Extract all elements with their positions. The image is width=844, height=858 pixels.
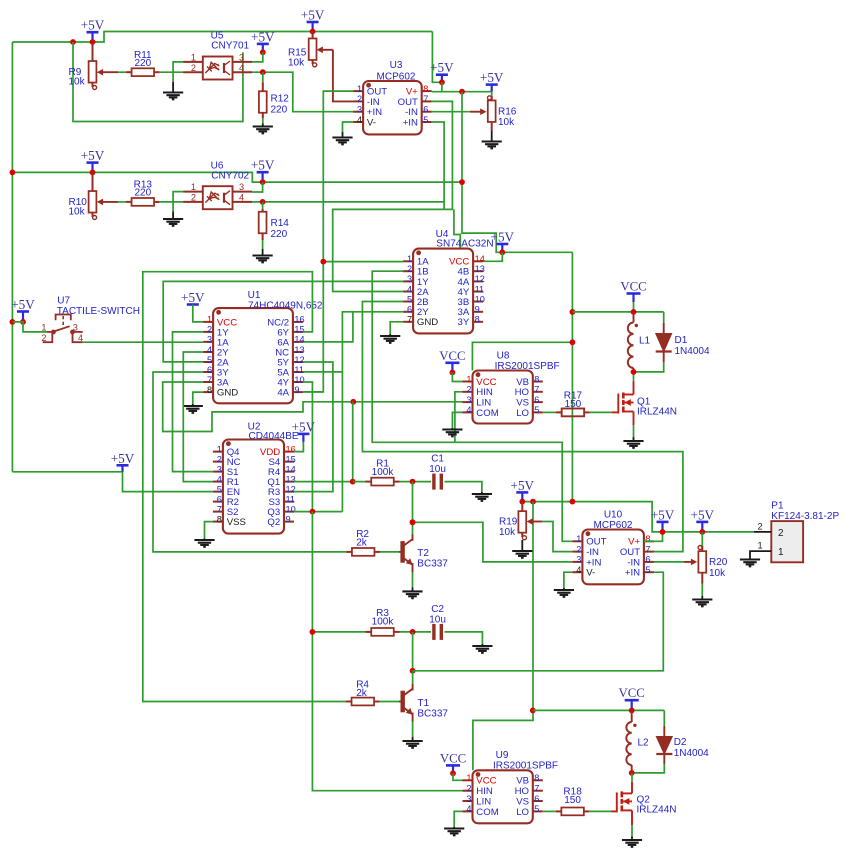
svg-text:6: 6 xyxy=(407,305,412,315)
wire U4 1B to U10 OUT net xyxy=(372,271,572,541)
wire R13 to U6 pin2 xyxy=(160,201,184,203)
wire U2 VSS to ground xyxy=(205,522,213,539)
wire U3 -IN2 to R16 wiper xyxy=(432,111,470,113)
svg-text:7: 7 xyxy=(407,315,412,325)
svg-text:4: 4 xyxy=(357,115,362,125)
svg-text:GND: GND xyxy=(417,317,438,328)
svg-text:L2: L2 xyxy=(638,738,650,749)
junction xyxy=(519,499,525,505)
wire VCC drop to U9 corner xyxy=(473,710,533,770)
resistor R19 (trimmer) xyxy=(518,502,542,540)
wire U10 -IN2 to R20 wiper xyxy=(654,561,684,563)
op-amp U3 MCP602 xyxy=(353,81,432,134)
svg-text:L1: L1 xyxy=(639,336,651,347)
svg-text:14: 14 xyxy=(294,335,304,345)
resistor R12 xyxy=(259,72,267,118)
junction R3/C2/T1 xyxy=(410,629,416,635)
svg-text:8: 8 xyxy=(645,534,650,544)
ground P1 xyxy=(740,560,760,567)
svg-text:100k: 100k xyxy=(372,617,395,628)
connector P1 KF124-3.81-2P xyxy=(754,521,803,562)
svg-text:1N4004: 1N4004 xyxy=(674,748,709,759)
resistor R10 (trimmer) xyxy=(89,172,118,219)
svg-text:+5V: +5V xyxy=(111,451,135,466)
svg-text:3: 3 xyxy=(207,335,212,345)
wire R1 to C1 xyxy=(400,481,432,483)
svg-text:1: 1 xyxy=(576,534,581,544)
+5V supply R9 xyxy=(81,18,105,42)
svg-text:GND: GND xyxy=(217,388,238,399)
driver U9 IRS2001SPBF xyxy=(463,770,543,823)
svg-text:4: 4 xyxy=(407,284,412,294)
svg-text:+5V: +5V xyxy=(651,507,675,522)
wire T1 collector to U10 pin5 xyxy=(413,572,664,671)
svg-text:+5V: +5V xyxy=(292,419,316,434)
svg-text:9: 9 xyxy=(286,514,291,524)
wire +5V to U1 pin1 xyxy=(193,305,203,322)
resistor R4 xyxy=(346,698,380,706)
ground R19 xyxy=(512,551,532,558)
wire U4 2Y to U1 5A 6A and Q3 net xyxy=(342,312,403,512)
junction L1 top xyxy=(631,309,637,315)
svg-text:CNY701: CNY701 xyxy=(211,41,249,52)
VCC supply U8 xyxy=(439,349,465,373)
wire R3 to C2 xyxy=(400,631,432,633)
svg-text:1: 1 xyxy=(41,322,46,332)
wire U2 R3 to U1 5Y xyxy=(294,362,333,492)
ground C1 xyxy=(472,494,492,501)
+5V supply EN xyxy=(111,451,135,472)
svg-text:6: 6 xyxy=(207,365,212,375)
svg-text:13: 13 xyxy=(475,264,485,274)
junction +5V net xyxy=(459,89,465,95)
svg-text:U8: U8 xyxy=(497,351,510,362)
svg-text:5: 5 xyxy=(534,804,539,814)
svg-text:VCC: VCC xyxy=(476,776,496,787)
ground U1 xyxy=(183,406,203,413)
junction U3 V+ xyxy=(439,79,445,85)
svg-text:+5V: +5V xyxy=(11,297,35,312)
svg-text:3: 3 xyxy=(466,395,471,405)
junction R20 xyxy=(699,529,705,535)
svg-text:15: 15 xyxy=(294,325,304,335)
svg-text:9: 9 xyxy=(475,305,480,315)
svg-text:7: 7 xyxy=(207,375,212,385)
svg-text:3Y: 3Y xyxy=(458,317,470,328)
svg-text:+IN: +IN xyxy=(625,568,640,579)
svg-text:U5: U5 xyxy=(211,30,224,41)
svg-text:8: 8 xyxy=(534,773,539,783)
wire U4 1A row xyxy=(323,261,403,263)
ground Q1 xyxy=(623,441,643,448)
svg-text:+IN: +IN xyxy=(403,117,418,128)
capacitor C1 xyxy=(434,474,441,490)
svg-text:4A: 4A xyxy=(277,388,289,399)
svg-text:7: 7 xyxy=(534,385,539,395)
svg-text:150: 150 xyxy=(565,399,582,410)
wire Q2 drain to L2/D2 xyxy=(631,782,633,793)
svg-text:MCP602: MCP602 xyxy=(594,520,633,531)
wire U2 Q3 row xyxy=(294,511,342,513)
svg-text:+5V: +5V xyxy=(301,8,325,23)
svg-text:9: 9 xyxy=(294,385,299,395)
svg-text:3: 3 xyxy=(239,53,244,63)
ground R12 xyxy=(253,127,273,134)
junction R1/C1/T2 xyxy=(410,479,416,485)
svg-text:2k: 2k xyxy=(356,538,368,549)
svg-text:U3: U3 xyxy=(390,60,403,71)
svg-text:6: 6 xyxy=(534,794,539,804)
svg-text:4: 4 xyxy=(466,804,471,814)
ground R20 xyxy=(692,600,712,607)
wire +5V to U3 V+ xyxy=(432,32,442,83)
junction R15 +5V xyxy=(310,29,316,35)
svg-text:3: 3 xyxy=(407,274,412,284)
svg-text:7: 7 xyxy=(217,504,222,514)
svg-text:R19: R19 xyxy=(499,517,518,528)
resistor R11 xyxy=(126,68,160,76)
junction U5 +5V xyxy=(260,49,266,55)
svg-text:4: 4 xyxy=(78,333,83,343)
wire R19 wiper to U10 -IN xyxy=(542,522,572,552)
transistor Q1 IRLZ44N xyxy=(618,393,633,414)
+5V supply R10 xyxy=(81,148,105,172)
VCC supply L1 xyxy=(620,280,646,303)
svg-text:+5V: +5V xyxy=(480,70,504,85)
ground R14 xyxy=(253,256,273,263)
wire T2 collector to U10 +IN xyxy=(413,522,573,562)
or-gate U4 SN74AC32N xyxy=(403,249,485,334)
svg-text:U6: U6 xyxy=(211,160,224,171)
resistor R2 xyxy=(346,548,380,556)
wire +5V distribution to R16 and U4 xyxy=(442,91,492,93)
svg-text:10u: 10u xyxy=(429,615,446,626)
svg-text:3: 3 xyxy=(239,182,244,192)
svg-text:6: 6 xyxy=(645,555,650,565)
svg-text:6: 6 xyxy=(534,395,539,405)
switch U7 TACTILE-SWITCH xyxy=(43,315,83,343)
junction T1 collector xyxy=(410,668,416,674)
wire +5V to U6 pin3 xyxy=(252,182,262,192)
junction U5 pin4 / R12 xyxy=(260,69,266,75)
wire U4 1Y output to U1 1Y chain xyxy=(163,281,403,362)
wire left vertical bus x=12.4 xyxy=(11,42,13,472)
svg-text:8: 8 xyxy=(423,84,428,94)
svg-text:3: 3 xyxy=(576,555,581,565)
svg-text:12: 12 xyxy=(294,355,304,365)
svg-text:TACTILE-SWITCH: TACTILE-SWITCH xyxy=(57,306,140,317)
svg-text:C1: C1 xyxy=(431,454,444,465)
svg-text:IRLZ44N: IRLZ44N xyxy=(637,805,677,816)
wire U3 V- to ground xyxy=(343,122,354,132)
svg-text:5: 5 xyxy=(645,565,650,575)
svg-text:6: 6 xyxy=(423,105,428,115)
svg-text:+5V: +5V xyxy=(181,290,205,305)
resistor R9 (trimmer) xyxy=(89,42,118,90)
svg-text:+5V: +5V xyxy=(81,18,105,33)
ground C2 xyxy=(472,646,492,653)
wire T1 emitter to ground xyxy=(411,714,413,722)
wire +5V over to VCC vertical xyxy=(571,252,573,501)
wire VCC drop to U8 corner xyxy=(472,342,572,370)
+5V supply U4 xyxy=(491,230,515,253)
svg-text:10: 10 xyxy=(294,375,304,385)
junction xyxy=(20,319,26,325)
wire R20 bottom to ground xyxy=(701,584,703,597)
wire T1 collector diag link xyxy=(411,684,413,690)
latch U2 CD4044BE xyxy=(213,440,296,534)
svg-text:1: 1 xyxy=(757,541,762,551)
ground U4 xyxy=(380,336,400,343)
svg-text:+5V: +5V xyxy=(691,507,715,522)
svg-text:11: 11 xyxy=(286,494,296,504)
VCC supply U9 xyxy=(440,751,466,773)
svg-text:13: 13 xyxy=(286,474,296,484)
driver U8 IRS2001SPBF xyxy=(463,371,543,424)
junction R1 left xyxy=(350,479,356,485)
svg-text:10k: 10k xyxy=(709,568,726,579)
svg-text:1: 1 xyxy=(207,315,212,325)
svg-text:10k: 10k xyxy=(69,207,86,218)
svg-text:2: 2 xyxy=(778,528,784,539)
+5V supply U7 xyxy=(11,297,35,322)
junction VCC xyxy=(570,339,576,345)
junction xyxy=(70,39,76,45)
wire R9 return x=73 to y=121.5 to x=242.9 xyxy=(73,42,243,122)
svg-text:4: 4 xyxy=(207,345,212,355)
wire R11 to U5 pin2 xyxy=(160,71,184,73)
svg-text:VCC: VCC xyxy=(620,280,646,294)
inverter U1 74HC4049N xyxy=(203,308,305,403)
wire Q2 source to ground xyxy=(631,810,633,825)
svg-text:C2: C2 xyxy=(431,604,444,615)
wire R18 to Q2 gate xyxy=(589,810,611,812)
wire R17 to Q1 gate xyxy=(590,411,613,413)
junction VCC U9 area xyxy=(530,708,536,714)
wire U9 LO to R18 xyxy=(543,810,556,812)
wire U8 COM to ground xyxy=(452,412,462,428)
junction xyxy=(90,170,96,176)
junction xyxy=(10,170,16,176)
svg-text:11: 11 xyxy=(475,284,485,294)
transistor T2 BC337 xyxy=(400,539,412,565)
svg-text:8: 8 xyxy=(475,315,480,325)
svg-text:8: 8 xyxy=(217,514,222,524)
svg-text:MCP602: MCP602 xyxy=(377,72,416,83)
diode D1 1N4004 xyxy=(663,312,665,323)
junction U6 pin3 net xyxy=(459,179,465,185)
svg-text:5: 5 xyxy=(423,115,428,125)
resistor R17 xyxy=(556,409,590,417)
svg-text:10u: 10u xyxy=(429,464,446,475)
wire LIN net to R1 node xyxy=(352,402,354,482)
+5V supply R15 xyxy=(301,8,325,32)
svg-text:R14: R14 xyxy=(271,218,290,229)
wire U1 5A branch xyxy=(303,371,343,373)
svg-text:2: 2 xyxy=(757,522,762,532)
wire U10 pin8 to +5V xyxy=(644,532,663,541)
svg-text:1: 1 xyxy=(778,547,784,558)
wire U1 3Y to R2 xyxy=(153,372,346,552)
resistor R14 xyxy=(259,202,267,240)
svg-text:U7: U7 xyxy=(57,295,70,306)
svg-text:2: 2 xyxy=(191,193,196,203)
svg-text:LIN: LIN xyxy=(476,796,491,807)
svg-text:P1: P1 xyxy=(771,501,784,512)
wire U4 GND to ground xyxy=(390,322,403,334)
svg-text:16: 16 xyxy=(294,315,304,325)
junction xyxy=(10,319,16,325)
svg-text:T2: T2 xyxy=(417,548,429,559)
wire T1 collector node xyxy=(412,632,414,671)
svg-text:5: 5 xyxy=(207,355,212,365)
wire U1 3A to U8 LIN xyxy=(163,382,463,432)
svg-text:COM: COM xyxy=(476,408,498,419)
ground U10 xyxy=(554,590,574,597)
svg-text:2: 2 xyxy=(407,264,412,274)
optocoupler U6 CNY702 xyxy=(183,186,252,209)
svg-text:1: 1 xyxy=(407,254,412,264)
wire Q3 net down to R3 and U9 HIN xyxy=(312,512,462,791)
svg-text:10k: 10k xyxy=(69,77,86,88)
svg-text:3: 3 xyxy=(466,794,471,804)
+5V supply R16 xyxy=(480,70,504,92)
svg-text:KF124-3.81-2P: KF124-3.81-2P xyxy=(771,511,839,522)
svg-text:BC337: BC337 xyxy=(417,709,448,720)
resistor R16 (trimmer) xyxy=(470,92,496,131)
svg-text:1: 1 xyxy=(466,773,471,783)
wire U8 LO to R17 xyxy=(543,411,556,413)
junction U6 pin4 / R14 xyxy=(260,199,266,205)
svg-text:D2: D2 xyxy=(674,737,687,748)
svg-text:VCC: VCC xyxy=(619,686,645,700)
wire node U5 pin4 row xyxy=(252,72,353,112)
svg-text:1: 1 xyxy=(217,444,222,454)
wire +5V rail right y=501.6 xyxy=(522,502,754,532)
svg-text:14: 14 xyxy=(286,464,296,474)
resistor R18 xyxy=(556,808,590,816)
wire U1 2Y to U2 R1 xyxy=(183,352,213,482)
svg-text:R12: R12 xyxy=(271,94,290,105)
wire U4 box-top appendage xyxy=(454,209,460,248)
svg-text:V-: V- xyxy=(367,117,376,128)
junction L1 bottom xyxy=(631,369,637,375)
resistor R1 xyxy=(353,478,400,486)
wire U1 1Y chain to 2A xyxy=(173,332,213,472)
svg-text:4: 4 xyxy=(217,474,222,484)
svg-text:12: 12 xyxy=(286,484,296,494)
wire U6 pin1 to ground xyxy=(173,192,183,212)
svg-text:3: 3 xyxy=(73,322,78,332)
junction U4 1A xyxy=(320,259,326,265)
svg-text:1: 1 xyxy=(357,84,362,94)
wire switch pin4 to U1 1A xyxy=(83,341,203,343)
svg-text:5: 5 xyxy=(407,294,412,304)
junction xyxy=(530,499,536,505)
resistor R20 (trimmer) xyxy=(684,532,706,584)
wire +5V rail top-left horizontal y=42 xyxy=(12,32,432,43)
wire VCC rail at L1 xyxy=(572,311,663,313)
wire U2 Q1 to R1 xyxy=(294,481,353,483)
wire C2 to ground xyxy=(445,632,483,644)
svg-text:LO: LO xyxy=(516,807,529,818)
svg-text:D1: D1 xyxy=(675,335,688,346)
ground U8 xyxy=(442,430,462,437)
junction Q3 net xyxy=(310,509,316,515)
svg-text:U10: U10 xyxy=(604,510,623,521)
svg-text:2: 2 xyxy=(357,94,362,104)
svg-text:16: 16 xyxy=(286,444,296,454)
wire +5V to switch pin1 xyxy=(12,322,47,332)
junction L2 bottom xyxy=(629,770,635,776)
svg-text:Q2: Q2 xyxy=(267,517,280,528)
svg-text:100k: 100k xyxy=(372,467,395,478)
svg-text:14: 14 xyxy=(475,254,485,264)
svg-text:VCC: VCC xyxy=(440,751,466,765)
wire U1 4Y down to Q3 node xyxy=(303,382,313,512)
svg-text:2: 2 xyxy=(41,333,46,343)
svg-text:7: 7 xyxy=(534,784,539,794)
svg-text:2: 2 xyxy=(466,385,471,395)
svg-text:U9: U9 xyxy=(496,750,509,761)
svg-text:+5V: +5V xyxy=(81,148,105,163)
svg-text:IRLZ44N: IRLZ44N xyxy=(637,407,677,418)
inductor L1 xyxy=(633,312,635,323)
junction U9 VCC xyxy=(450,770,456,776)
ground U6 pin1 xyxy=(163,219,183,226)
wire T2 collector node xyxy=(412,482,414,523)
svg-text:12: 12 xyxy=(475,274,485,284)
wire U3 OUT2 to U4 2A xyxy=(333,101,453,291)
wire Q1 drain to L1/D1 xyxy=(633,382,635,395)
svg-text:220: 220 xyxy=(134,58,151,69)
wire R4 to T1 base xyxy=(380,701,403,703)
svg-text:LO: LO xyxy=(516,408,529,419)
svg-text:+5V: +5V xyxy=(251,158,275,173)
svg-text:2k: 2k xyxy=(356,688,368,699)
capacitor C2 xyxy=(434,624,441,640)
svg-text:VB: VB xyxy=(516,776,529,787)
svg-text:150: 150 xyxy=(564,795,581,806)
junction U6 +5V xyxy=(260,179,266,185)
wire U4 2B to U10 OUT2 net xyxy=(362,302,683,552)
svg-text:3: 3 xyxy=(357,105,362,115)
svg-text:3: 3 xyxy=(217,464,222,474)
wire +5V to U2 VDD xyxy=(294,442,303,452)
wire VCC to U9 pin1 xyxy=(453,773,463,780)
junction L2 top xyxy=(629,708,635,714)
ground T2 xyxy=(402,591,422,598)
svg-text:VCC: VCC xyxy=(439,349,465,363)
svg-text:1: 1 xyxy=(191,182,196,192)
svg-text:11: 11 xyxy=(294,365,304,375)
wire Q1 source to ground xyxy=(633,412,635,426)
svg-text:10: 10 xyxy=(475,294,485,304)
svg-text:1N4004: 1N4004 xyxy=(675,346,710,357)
wire R9 wiper to R11 xyxy=(118,71,126,73)
svg-text:15: 15 xyxy=(286,454,296,464)
svg-text:+5V: +5V xyxy=(491,230,515,245)
+5V supply U2 xyxy=(292,419,316,442)
svg-text:1: 1 xyxy=(191,53,196,63)
svg-text:7: 7 xyxy=(423,94,428,104)
svg-text:2: 2 xyxy=(576,544,581,554)
wire VCC stub to rail xyxy=(633,302,635,312)
junction xyxy=(90,39,96,45)
+5V supply U5 xyxy=(251,29,275,52)
wire P1 pin1 to ground xyxy=(750,551,754,559)
wire U10 V- to ground xyxy=(564,572,573,588)
